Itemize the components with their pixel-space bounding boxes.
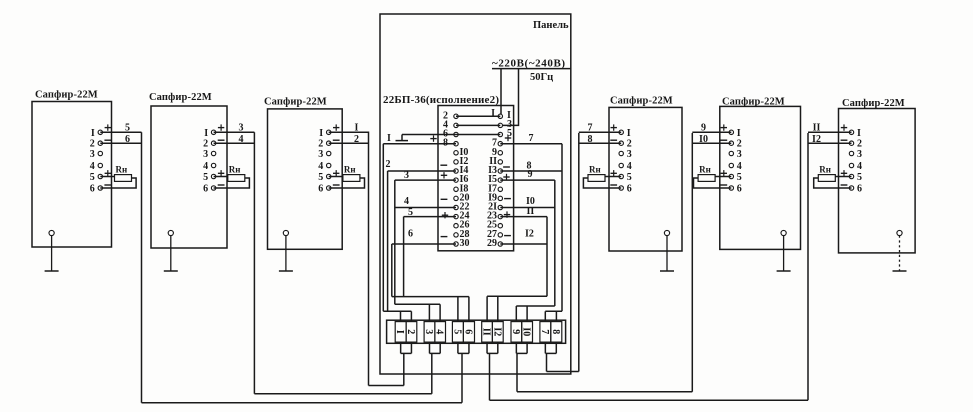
terminal pin 26 of U1	[454, 220, 470, 231]
svg-text:8: 8	[550, 329, 561, 334]
terminal pin 17 of U1	[488, 183, 502, 194]
svg-text:Rн: Rн	[116, 165, 128, 175]
ground terminal of BP6	[897, 230, 902, 235]
strip terminal cell 5	[451, 322, 463, 343]
terminal 5 of BP6	[849, 172, 862, 183]
wire 9 from BP5 terminal 1	[692, 122, 731, 133]
svg-text:4: 4	[627, 161, 632, 172]
panel enclosure box	[380, 14, 571, 374]
resistor Rn of BP5	[698, 165, 715, 182]
svg-text:Панель: Панель	[533, 20, 569, 31]
wire stem pair 7-8 down	[546, 353, 548, 371]
terminal 6 of BP5	[729, 184, 742, 195]
transmitter box BP4 Sapfir-22M	[609, 107, 682, 251]
svg-text:7: 7	[588, 122, 593, 133]
terminal 6 of BP2	[203, 184, 216, 195]
polarity marks BP3	[333, 124, 340, 185]
svg-text:3: 3	[627, 149, 632, 160]
wire bar pair 7-8 top	[545, 311, 562, 321]
wire cable box4 vertical	[578, 133, 580, 372]
svg-text:I0: I0	[699, 134, 708, 145]
wire 4 from BP2 terminal 2	[214, 134, 255, 145]
svg-text:2: 2	[386, 159, 391, 170]
wire I with chassis ground to pin 6	[387, 133, 456, 144]
wire bar pair 5-6 top	[392, 297, 469, 322]
wire Rn loop BP4	[583, 177, 621, 189]
transmitter BP2 label	[149, 92, 212, 103]
resistor Rn of BP1	[115, 165, 132, 182]
terminal 1 of BP4	[619, 128, 631, 139]
svg-text:3: 3	[239, 122, 244, 133]
svg-text:I0: I0	[521, 327, 532, 336]
svg-text:3: 3	[737, 149, 742, 160]
wire stem pair 3-4 down	[431, 353, 433, 393]
terminal 6 of BP1	[90, 184, 103, 195]
ground terminal of BP3	[283, 230, 288, 235]
transmitter box BP6 Sapfir-22M	[839, 109, 916, 253]
ground terminal of BP4	[664, 230, 669, 235]
transmitter BP5 label	[722, 97, 785, 108]
svg-text:2: 2	[405, 329, 416, 334]
svg-text:I: I	[319, 128, 323, 139]
strip terminal cell 7	[539, 322, 551, 343]
strip terminal cell 6	[462, 322, 474, 343]
terminal pin 21 of U1	[488, 202, 502, 213]
wire 2 to pin 14	[386, 159, 457, 171]
wire 2 vertical	[387, 171, 389, 311]
terminal 5 of BP4	[619, 172, 632, 183]
wire 12 to pin 29	[500, 229, 547, 245]
wire 5 to pin 24	[404, 207, 456, 218]
wire Rn loop BP2	[214, 177, 250, 189]
resistor Rn of BP6	[818, 165, 835, 182]
svg-text:3: 3	[404, 170, 409, 181]
wire 220V bus	[492, 68, 571, 70]
terminal pin 22 of U1	[454, 202, 470, 213]
svg-text:~220В(~240В): ~220В(~240В)	[492, 58, 566, 70]
transmitter BP3 label	[264, 97, 327, 108]
terminal 2 of BP4	[619, 139, 632, 150]
terminal pin 2 of U1	[443, 110, 458, 121]
wire Rn loop BP6	[814, 177, 852, 189]
transmitter box BP5 Sapfir-22M	[720, 106, 801, 249]
wire 8 to pin 13	[500, 161, 562, 172]
terminal 1 of BP1	[91, 128, 103, 139]
wire bar pair 3-4 top	[395, 304, 440, 321]
terminal 6 of BP3	[318, 184, 331, 195]
svg-text:5: 5	[318, 172, 323, 183]
terminal 2 of BP1	[90, 139, 103, 150]
svg-text:5: 5	[451, 329, 462, 334]
wire bar pair 9-I0 bottom	[516, 342, 527, 353]
wire run to box4	[547, 371, 579, 373]
wire I0 from BP5 terminal 2	[692, 134, 731, 145]
wire I from BP3 terminal 1	[329, 122, 369, 133]
ground symbol BP3	[279, 236, 293, 271]
svg-text:9: 9	[528, 169, 533, 180]
wire 8 from BP4 terminal 2	[579, 134, 621, 145]
svg-text:Сапфир-22М: Сапфир-22М	[264, 97, 327, 108]
wire L to pin 1	[500, 69, 502, 114]
svg-text:I: I	[394, 330, 405, 334]
resistor Rn of BP2	[228, 165, 245, 182]
svg-text:II: II	[813, 122, 821, 133]
wire 5 vertical	[403, 217, 405, 297]
strip terminal cell 2	[405, 322, 417, 343]
svg-text:3: 3	[857, 149, 862, 160]
strip terminal cell I2	[491, 322, 503, 343]
terminal pin 7 of U1	[492, 138, 502, 149]
terminal pin 5 of U1	[498, 128, 512, 139]
terminal 1 of BP3	[319, 128, 331, 139]
ground terminal of BP5	[781, 230, 786, 235]
terminal 2 of BP3	[318, 139, 331, 150]
terminal 1 of BP6	[849, 128, 861, 139]
power supply unit 22BP-36 box	[438, 106, 514, 251]
terminal 6 of BP4	[619, 184, 632, 195]
svg-text:3: 3	[90, 149, 95, 160]
svg-text:Сапфир-22М: Сапфир-22М	[149, 92, 212, 103]
terminal 1 of BP5	[729, 128, 741, 139]
terminal 4 of BP5	[729, 161, 742, 172]
terminal 4 of BP4	[619, 161, 632, 172]
terminal 6 of BP6	[849, 184, 862, 195]
wire run to box6	[490, 399, 809, 401]
chassis ground symbol	[396, 135, 409, 141]
svg-text:3: 3	[203, 149, 208, 160]
svg-text:I: I	[204, 128, 208, 139]
wire 7/8 vertical	[561, 144, 563, 312]
jumper wire pin4-pin3	[456, 124, 500, 126]
wire cable box1 vertical	[141, 132, 143, 402]
ground symbol BP5	[777, 236, 791, 271]
wire Rn loop BP3	[329, 177, 365, 189]
wire bar pair 11-12 top	[487, 296, 547, 321]
terminal pin 29 of U1	[487, 238, 502, 249]
svg-text:6: 6	[857, 184, 862, 195]
svg-text:II: II	[481, 328, 492, 336]
wire 3 to pin 16	[395, 170, 456, 181]
wire 9/10 vertical	[554, 180, 556, 306]
terminal pin 15 of U1	[488, 174, 502, 185]
svg-text:50Гц: 50Гц	[530, 72, 553, 83]
svg-text:Rн: Rн	[344, 165, 356, 175]
svg-text:4: 4	[239, 134, 244, 145]
wire bar pair I-2 bottom	[401, 342, 412, 353]
terminal 2 of BP2	[203, 139, 216, 150]
terminal pin 9 of U1	[492, 147, 502, 158]
svg-text:I: I	[355, 122, 359, 133]
terminal pin 10 of U1	[454, 147, 469, 158]
svg-text:6: 6	[408, 229, 413, 240]
svg-text:I: I	[737, 128, 741, 139]
ground terminal of BP1	[49, 230, 54, 235]
strip terminal cell 8	[550, 322, 562, 343]
wire II from BP6 terminal 1	[808, 122, 852, 133]
wire 7 to pin 7	[500, 133, 562, 144]
svg-text:30: 30	[460, 238, 470, 249]
panel label	[533, 20, 569, 31]
svg-text:I: I	[857, 128, 861, 139]
svg-text:I: I	[491, 108, 495, 119]
strip terminal cell I	[394, 322, 406, 343]
wire I2 from BP6 terminal 2	[808, 134, 852, 145]
svg-text:29: 29	[487, 238, 497, 249]
terminal 4 of BP2	[203, 161, 216, 172]
terminal 3 of BP4	[619, 149, 632, 160]
terminal 4 of BP6	[849, 161, 862, 172]
terminal 2 of BP6	[849, 139, 862, 150]
terminal 3 of BP2	[203, 149, 216, 160]
wire I to pin 8	[383, 135, 456, 143]
terminal pin 4 of U1	[443, 119, 458, 130]
svg-text:I2: I2	[812, 134, 821, 145]
polarity marks BP2	[218, 124, 225, 185]
transmitter BP6 label	[842, 98, 905, 109]
terminal 4 of BP1	[90, 161, 103, 172]
wire 10 to pin 21	[500, 196, 555, 208]
ground symbol BP1	[45, 236, 59, 271]
strip terminal cell 9	[510, 322, 522, 343]
terminal pin 23 of U1	[487, 211, 502, 222]
wire bar pair 3-4 bottom	[430, 342, 441, 353]
svg-text:Rн: Rн	[819, 165, 831, 175]
terminal 5 of BP1	[90, 172, 103, 183]
strip terminal cell 3	[423, 322, 435, 343]
wire run to box1	[142, 402, 463, 404]
terminal pin 11 of U1	[489, 156, 502, 167]
wire cable box5 vertical	[691, 133, 693, 392]
transmitter box BP2 Sapfir-22M	[151, 106, 227, 248]
svg-text:5: 5	[857, 172, 862, 183]
terminal 5 of BP5	[729, 172, 742, 183]
terminal 2 of BP5	[729, 139, 742, 150]
terminal 1 of BP2	[204, 128, 216, 139]
wire 5 from BP1 terminal 1	[100, 122, 141, 133]
power supply label	[383, 94, 499, 106]
svg-text:2: 2	[354, 134, 359, 145]
strip terminal cell 4	[434, 322, 446, 343]
svg-text:8: 8	[588, 134, 593, 145]
terminal 5 of BP2	[203, 172, 216, 183]
terminal pin 20 of U1	[454, 192, 470, 203]
strip terminal cell I0	[521, 322, 533, 343]
wire 11 to pin 23	[500, 206, 547, 218]
terminal pin 3 of U1	[498, 119, 512, 130]
terminal strip XT outer box	[387, 320, 566, 343]
svg-text:I2: I2	[491, 327, 502, 336]
wire N to pin 3	[503, 69, 519, 126]
polarity marks BP4	[610, 124, 617, 185]
terminal pin 18 of U1	[454, 183, 469, 194]
svg-text:6: 6	[627, 184, 632, 195]
svg-text:5: 5	[203, 172, 208, 183]
svg-text:4: 4	[318, 161, 323, 172]
transmitter box BP3 Sapfir-22M	[268, 109, 343, 249]
svg-text:I2: I2	[525, 229, 534, 240]
wire I vertical	[382, 144, 384, 312]
terminal pin 19 of U1	[488, 192, 502, 203]
svg-text:Сапфир-22М: Сапфир-22М	[842, 98, 905, 109]
polarity marks BP1	[104, 124, 111, 185]
svg-text:3: 3	[423, 329, 434, 334]
svg-text:5: 5	[90, 172, 95, 183]
svg-text:Rн: Rн	[699, 165, 711, 175]
ground symbol BP2	[164, 236, 178, 271]
polarity marks BP6	[841, 124, 848, 185]
terminal pin 1 of U1	[498, 110, 511, 121]
svg-text:I: I	[387, 133, 391, 144]
svg-text:7: 7	[529, 133, 534, 144]
net 50Hz label	[530, 72, 553, 83]
wire stem pair 5-6 down	[461, 353, 463, 402]
svg-text:4: 4	[404, 196, 409, 207]
polarity marks BP5	[720, 124, 727, 185]
terminal 3 of BP1	[90, 149, 103, 160]
wire bar pair II-I2 bottom	[487, 342, 498, 353]
svg-text:6: 6	[90, 184, 95, 195]
svg-text:6: 6	[462, 329, 473, 334]
svg-text:4: 4	[203, 161, 208, 172]
wire bar pair 5-6 bottom	[458, 342, 469, 353]
terminal 5 of BP3	[318, 172, 331, 183]
svg-text:3: 3	[318, 149, 323, 160]
svg-text:Сапфир-22М: Сапфир-22М	[35, 90, 98, 101]
wire bar pair I-2 top	[383, 311, 411, 321]
wire 3/4 vertical	[394, 180, 396, 304]
terminal 3 of BP6	[849, 149, 862, 160]
jumper wire pin2-pin1	[456, 108, 500, 119]
strip terminal cell II	[481, 322, 493, 343]
resistor Rn of BP4	[588, 165, 605, 182]
svg-text:5: 5	[408, 207, 413, 218]
terminal pin 13 of U1	[488, 165, 502, 176]
terminal pin 30 of U1	[454, 238, 470, 249]
wire 9 to pin 15	[500, 169, 555, 180]
wire 6 from BP1 terminal 2	[100, 134, 141, 145]
jumper wire pin6-pin5	[456, 134, 500, 136]
transmitter BP1 label	[35, 90, 98, 101]
wire Rn loop BP1	[100, 177, 136, 189]
wire stem pair II-I2 down	[489, 353, 491, 400]
svg-text:5: 5	[627, 172, 632, 183]
svg-text:22БП-36(исполнение2): 22БП-36(исполнение2)	[383, 94, 499, 106]
wire 2 from BP3 terminal 2	[329, 134, 369, 145]
svg-text:6: 6	[737, 184, 742, 195]
terminal pin 16 of U1	[454, 174, 469, 185]
transmitter BP4 label	[610, 96, 673, 107]
wire bar pair 9-10 top	[516, 306, 555, 322]
transmitter box BP1 Sapfir-22M	[32, 102, 112, 248]
svg-text:Сапфир-22М: Сапфир-22М	[610, 96, 673, 107]
svg-text:4: 4	[857, 161, 862, 172]
terminal pin 25 of U1	[487, 220, 502, 231]
svg-text:I: I	[627, 128, 631, 139]
wire 7 from BP4 terminal 1	[579, 122, 621, 133]
svg-text:Rн: Rн	[589, 165, 601, 175]
svg-text:9: 9	[701, 122, 706, 133]
terminal pin 6 of U1	[443, 129, 458, 140]
wire run to box2	[254, 393, 431, 395]
svg-text:Сапфир-22М: Сапфир-22М	[722, 97, 785, 108]
wire cable box3 vertical	[368, 132, 370, 386]
svg-text:4: 4	[737, 161, 742, 172]
terminal 4 of BP3	[318, 161, 331, 172]
svg-text:9: 9	[510, 329, 521, 334]
wire cable box6 vertical	[807, 133, 809, 400]
wire Rn loop BP5	[694, 177, 732, 189]
terminal 3 of BP3	[318, 149, 331, 160]
svg-text:I: I	[91, 128, 95, 139]
resistor Rn of BP3	[343, 165, 360, 182]
wire bar pair 7-8 bottom	[545, 342, 556, 353]
wire run to box3	[369, 385, 404, 387]
wire cable box2 vertical	[253, 132, 255, 394]
terminal pin 28 of U1	[454, 229, 470, 240]
ground symbol BP6	[893, 236, 907, 271]
terminal pin 14 of U1	[454, 165, 469, 176]
wire 6 vertical	[391, 244, 393, 297]
svg-text:5: 5	[737, 172, 742, 183]
svg-text:4: 4	[90, 161, 95, 172]
svg-text:5: 5	[125, 122, 130, 133]
wire 3 from BP2 terminal 1	[214, 122, 255, 133]
wire 6 to pin 30	[392, 229, 456, 245]
wire stem pair I-2 down	[403, 353, 405, 385]
terminal pin 12 of U1	[454, 156, 469, 167]
wire 4 to pin 22	[395, 196, 456, 208]
svg-text:6: 6	[318, 184, 323, 195]
terminal pin 27 of U1	[487, 229, 502, 240]
terminal pin 24 of U1	[454, 211, 470, 222]
terminal 3 of BP5	[729, 149, 742, 160]
svg-text:II: II	[527, 206, 535, 217]
svg-text:7: 7	[539, 329, 550, 334]
wire run to box5	[517, 391, 692, 393]
net ~220V label	[492, 58, 566, 70]
wire stem pair 9-I0 down	[516, 353, 518, 391]
terminal pin 8 of U1	[443, 138, 458, 149]
svg-text:4: 4	[434, 329, 445, 334]
ground terminal of BP2	[168, 230, 173, 235]
svg-text:Rн: Rн	[229, 165, 241, 175]
svg-text:6: 6	[125, 134, 130, 145]
wire 11/12 vertical	[546, 217, 548, 297]
ground symbol BP4	[660, 236, 674, 271]
svg-text:6: 6	[203, 184, 208, 195]
